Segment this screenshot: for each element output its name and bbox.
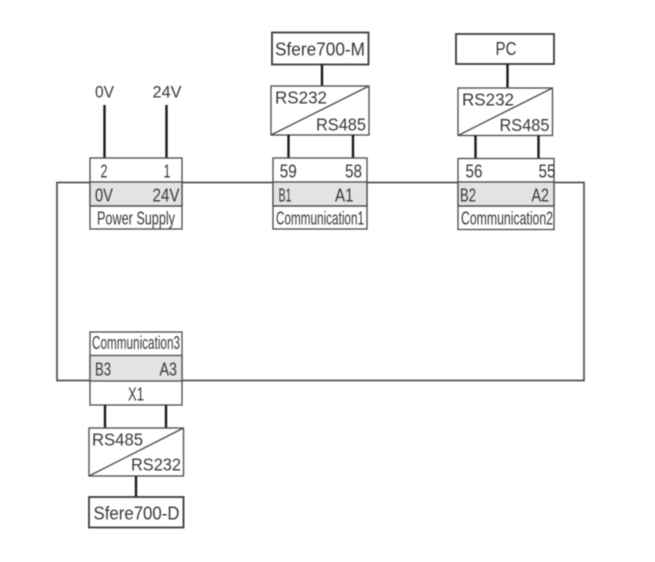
svg-text:1: 1 [164, 161, 171, 182]
terminal label B2 [460, 185, 476, 206]
label Power Supply [97, 208, 175, 228]
svg-text:A2: A2 [532, 185, 550, 206]
svg-text:Power Supply: Power Supply [97, 208, 175, 228]
svg-text:B1: B1 [279, 185, 292, 206]
wire Sfere700-M to converter [321, 65, 323, 87]
pin 55 [539, 161, 556, 182]
svg-text:0V: 0V [95, 185, 114, 206]
svg-text:59: 59 [280, 161, 297, 182]
svg-text:RS232: RS232 [462, 90, 514, 110]
device outline rectangle [57, 183, 584, 381]
terminal block Communication3 [90, 332, 182, 405]
svg-text:RS485: RS485 [316, 114, 366, 134]
svg-text:56: 56 [466, 161, 483, 182]
pin 58 [345, 161, 362, 182]
wire converter to terminal 58 [352, 135, 354, 158]
wire X1 to converter (right) [165, 405, 167, 428]
terminal label B1 [279, 185, 292, 206]
svg-text:B2: B2 [460, 185, 476, 206]
svg-text:24V: 24V [153, 185, 181, 206]
wire PC to converter [506, 64, 508, 88]
svg-text:55: 55 [539, 161, 556, 182]
terminal block Communication1 [273, 158, 367, 229]
svg-text:Communication1: Communication1 [276, 208, 364, 228]
svg-text:X1: X1 [128, 383, 144, 404]
svg-text:24V: 24V [153, 83, 183, 102]
terminal block Power Supply [90, 158, 182, 229]
svg-text:RS485: RS485 [500, 115, 550, 135]
svg-text:Communication3: Communication3 [92, 333, 180, 353]
svg-text:RS485: RS485 [92, 430, 143, 450]
svg-text:Communication2: Communication2 [461, 208, 553, 228]
terminal label B3 [95, 359, 111, 380]
svg-text:58: 58 [345, 161, 362, 182]
node 24V (power input label) [153, 83, 183, 102]
svg-text:A3: A3 [160, 359, 178, 380]
svg-text:0V: 0V [95, 83, 115, 102]
box Sfere700-D [89, 497, 184, 528]
wire converter to Sfere700-D [135, 476, 137, 497]
terminal label A3 [160, 359, 178, 380]
wire converter to terminal 59 [287, 135, 289, 158]
terminal label 0V [95, 185, 114, 206]
label Communication2 [461, 208, 553, 228]
svg-text:2: 2 [101, 161, 108, 182]
wire 0V to terminal 2 [103, 105, 105, 158]
converter RS232/RS485 (middle) [271, 86, 369, 135]
svg-text:A1: A1 [335, 185, 354, 206]
pin 56 [466, 161, 483, 182]
node 0V (power input label) [95, 83, 115, 102]
terminal label 24V [153, 185, 181, 206]
label Communication3 [92, 333, 180, 353]
wire converter to terminal 56 [474, 136, 476, 159]
wire 24V to terminal 1 [165, 105, 167, 158]
connector X1 [128, 383, 144, 404]
pin 1 [164, 161, 171, 182]
svg-text:Sfere700-D: Sfere700-D [94, 503, 180, 524]
svg-text:Sfere700-M: Sfere700-M [275, 39, 365, 60]
pin 59 [280, 161, 297, 182]
wire converter to terminal 55 [537, 136, 539, 159]
box PC [456, 34, 554, 64]
pin 2 [101, 161, 108, 182]
svg-text:PC: PC [496, 38, 517, 59]
svg-text:RS232: RS232 [275, 88, 327, 108]
terminal label A1 [335, 185, 354, 206]
label Communication1 [276, 208, 364, 228]
converter RS232/RS485 (right) [458, 88, 553, 136]
svg-text:RS232: RS232 [131, 455, 181, 475]
svg-text:B3: B3 [95, 359, 111, 380]
converter RS485/RS232 (bottom) [89, 428, 184, 476]
terminal block Communication2 [458, 159, 554, 230]
wire X1 to converter (left) [104, 405, 106, 428]
terminal label A2 [532, 185, 550, 206]
box Sfere700-M [272, 33, 369, 65]
